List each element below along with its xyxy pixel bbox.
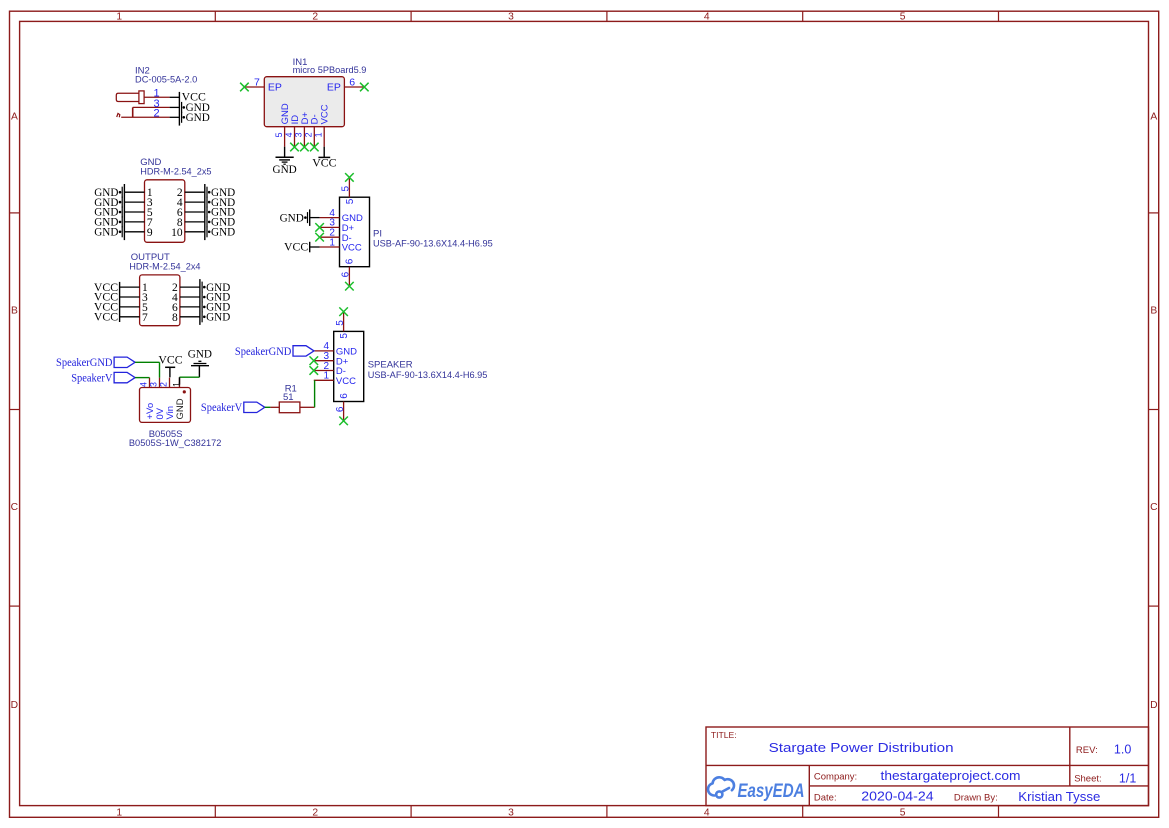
svg-text:5: 5 (335, 320, 346, 326)
svg-text:GND: GND (273, 164, 297, 176)
svg-text:1: 1 (116, 11, 122, 22)
svg-text:HDR-M-2.54_2x5: HDR-M-2.54_2x5 (140, 167, 211, 178)
svg-text:1: 1 (314, 132, 324, 137)
svg-text:2: 2 (153, 108, 159, 120)
svg-text:SpeakerGND: SpeakerGND (235, 344, 292, 358)
svg-text:1.0: 1.0 (1114, 743, 1131, 757)
svg-text:9: 9 (147, 227, 153, 239)
svg-text:B0505S-1W_C382172: B0505S-1W_C382172 (129, 438, 222, 449)
svg-text:GND: GND (175, 398, 186, 419)
svg-text:7: 7 (142, 312, 148, 324)
svg-text:3: 3 (294, 132, 304, 137)
svg-text:4: 4 (284, 132, 294, 137)
svg-text:2: 2 (312, 11, 318, 22)
svg-text:Kristian Tysse: Kristian Tysse (1018, 790, 1100, 804)
svg-text:3: 3 (508, 11, 514, 22)
svg-text:VCC: VCC (158, 355, 183, 367)
svg-text:6: 6 (349, 77, 355, 89)
svg-text:SpeakerGND: SpeakerGND (56, 355, 113, 369)
svg-text:Stargate Power Distribution: Stargate Power Distribution (769, 741, 954, 755)
svg-text:Sheet:: Sheet: (1074, 774, 1101, 785)
svg-text:GND: GND (94, 227, 118, 239)
svg-text:2: 2 (312, 807, 318, 818)
svg-text:VCC: VCC (336, 376, 356, 387)
svg-text:GND: GND (280, 212, 304, 224)
svg-text:GND: GND (211, 227, 235, 239)
svg-text:GND: GND (186, 112, 210, 124)
svg-text:1: 1 (116, 807, 122, 818)
svg-text:REV:: REV: (1076, 745, 1098, 756)
svg-text:6: 6 (335, 406, 346, 412)
svg-text:2: 2 (159, 382, 169, 387)
svg-text:A: A (1150, 111, 1157, 122)
svg-text:6: 6 (339, 393, 350, 399)
svg-text:B: B (1150, 305, 1157, 316)
svg-text:7: 7 (254, 77, 260, 89)
svg-text:1: 1 (324, 371, 330, 382)
svg-text:HDR-M-2.54_2x4: HDR-M-2.54_2x4 (129, 262, 200, 273)
svg-text:4: 4 (704, 807, 710, 818)
svg-text:2020-04-24: 2020-04-24 (861, 790, 933, 804)
svg-text:D: D (1150, 700, 1157, 711)
svg-text:EP: EP (327, 81, 341, 93)
svg-text:SPEAKER: SPEAKER (368, 360, 413, 371)
svg-text:C: C (11, 502, 19, 513)
svg-text:Company:: Company: (814, 772, 857, 783)
svg-text:3: 3 (508, 807, 514, 818)
svg-text:4: 4 (704, 11, 710, 22)
svg-text:8: 8 (172, 312, 178, 324)
svg-text:VCC: VCC (284, 242, 309, 254)
svg-text:10: 10 (171, 227, 183, 239)
svg-text:GND: GND (206, 312, 230, 324)
svg-text:2: 2 (304, 132, 314, 137)
svg-text:USB-AF-90-13.6X14.4-H6.95: USB-AF-90-13.6X14.4-H6.95 (373, 238, 493, 249)
svg-text:C: C (1150, 502, 1158, 513)
svg-text:6: 6 (341, 271, 352, 277)
svg-text:thestargateproject.com: thestargateproject.com (881, 769, 1021, 783)
svg-text:5: 5 (345, 198, 356, 204)
svg-text:1/1: 1/1 (1119, 771, 1136, 785)
svg-text:A: A (11, 111, 18, 122)
svg-text:5: 5 (900, 807, 906, 818)
svg-text:EP: EP (268, 81, 282, 93)
svg-text:1: 1 (171, 382, 181, 387)
svg-text:SpeakerV: SpeakerV (71, 371, 113, 385)
svg-text:4: 4 (139, 382, 149, 387)
svg-text:6: 6 (345, 258, 356, 264)
svg-text:GND: GND (188, 348, 212, 360)
svg-text:1: 1 (329, 237, 335, 248)
svg-text:D: D (11, 700, 18, 711)
svg-text:B: B (11, 305, 18, 316)
svg-text:VCC: VCC (94, 312, 119, 324)
svg-text:DC-005-5A-2.0: DC-005-5A-2.0 (135, 75, 197, 86)
svg-text:5: 5 (339, 333, 350, 339)
svg-text:5: 5 (274, 132, 284, 137)
svg-text:EasyEDA: EasyEDA (738, 781, 805, 802)
svg-text:USB-AF-90-13.6X14.4-H6.95: USB-AF-90-13.6X14.4-H6.95 (368, 370, 488, 381)
svg-text:VCC: VCC (342, 243, 362, 254)
svg-text:TITLE:: TITLE: (711, 730, 737, 740)
svg-text:VCC: VCC (312, 157, 337, 169)
svg-text:micro 5PBoard5.9: micro 5PBoard5.9 (293, 65, 367, 76)
svg-text:Date:: Date: (814, 792, 837, 803)
svg-text:3: 3 (149, 382, 159, 387)
svg-text:5: 5 (341, 186, 352, 192)
svg-text:SpeakerV: SpeakerV (201, 400, 243, 414)
svg-text:Drawn By:: Drawn By: (954, 792, 998, 803)
svg-text:5: 5 (900, 11, 906, 22)
svg-text:VCC: VCC (320, 104, 331, 124)
